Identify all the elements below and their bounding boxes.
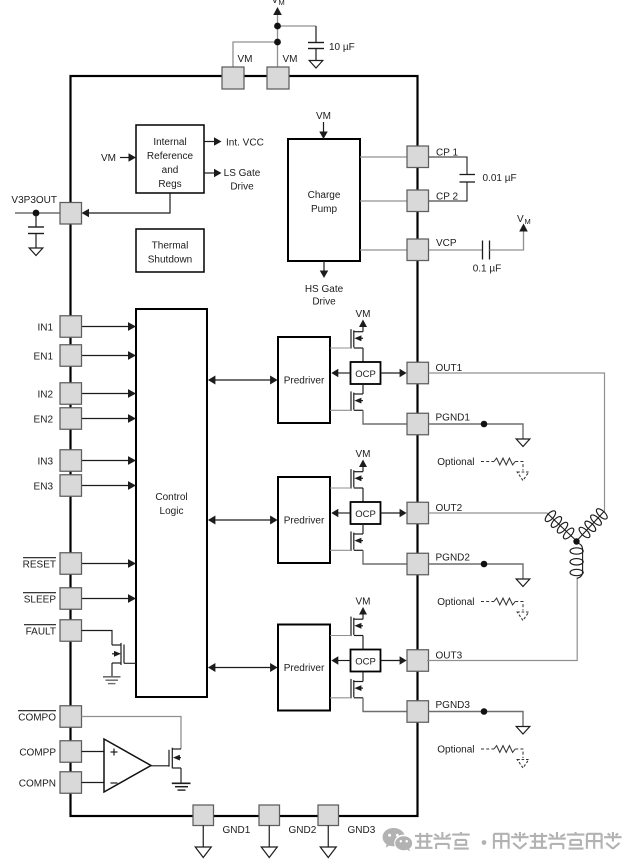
gate lead LS 1 bbox=[330, 409, 351, 411]
wire IN1 to control logic bbox=[82, 326, 131, 328]
wire EN3 to control logic bbox=[82, 485, 131, 487]
wire GND1 to ground bbox=[202, 826, 204, 848]
ground (V3P3OUT) bbox=[29, 248, 43, 256]
svg-text:VCP: VCP bbox=[436, 238, 457, 249]
wire EN2 to control logic bbox=[82, 418, 131, 420]
svg-text:PGND3: PGND3 bbox=[436, 700, 471, 711]
junction dot bbox=[274, 23, 281, 30]
wire source to ground bbox=[111, 663, 113, 677]
svg-text:Optional: Optional bbox=[437, 597, 474, 608]
HS Gate Drive output bbox=[323, 261, 325, 272]
ground (PGND2) bbox=[516, 579, 530, 587]
svg-text:VM: VM bbox=[356, 597, 371, 608]
pin SLEEP bbox=[60, 588, 82, 610]
block: Thermal Shutdown bbox=[136, 229, 204, 272]
ground (GND2) bbox=[261, 847, 277, 858]
transistor (COMPO output fet) bbox=[168, 750, 170, 767]
wire GND3 to ground bbox=[327, 826, 329, 848]
svg-text:0.1 µF: 0.1 µF bbox=[473, 264, 502, 275]
svg-text:Regs: Regs bbox=[158, 179, 181, 190]
output LS Gate Drive bbox=[204, 172, 215, 174]
ground (PGND3) bbox=[516, 727, 530, 735]
wire V3P3OUT bbox=[15, 212, 60, 214]
wire COMPN to comparator - bbox=[82, 782, 105, 784]
junction dot PGND2 bbox=[481, 561, 488, 568]
motor star junction dot bbox=[573, 538, 579, 544]
gate lead from control logic bbox=[124, 662, 136, 664]
svg-text:FAULT: FAULT bbox=[26, 626, 56, 637]
block OCP 1 bbox=[351, 362, 381, 384]
watermark wechat icon bbox=[383, 828, 413, 851]
wire RESET to control logic bbox=[82, 563, 131, 565]
pin COMPO bbox=[60, 706, 82, 728]
transistor low-side 1 bbox=[350, 391, 352, 411]
ground (comparator fet) three-bar bbox=[172, 782, 191, 784]
wire CP to CP2 bbox=[360, 200, 407, 202]
svg-text:Int. VCC: Int. VCC bbox=[226, 138, 264, 149]
junction dot PGND3 bbox=[481, 708, 488, 715]
wire CP to VCP bbox=[360, 249, 407, 251]
wire OCP to LS drain bbox=[362, 524, 364, 534]
pin VM (left pad) bbox=[222, 67, 244, 89]
block OCP 3 bbox=[351, 650, 381, 672]
block: Control Logic bbox=[136, 309, 207, 697]
ground (PGND1) bbox=[516, 439, 530, 447]
pin OUT3 bbox=[407, 650, 429, 672]
wire PGND1 to ground bbox=[429, 424, 524, 439]
wire GND2 to ground bbox=[268, 826, 270, 848]
arrow OCP to OUT3 bbox=[381, 660, 401, 662]
wire comparator output to fet gate bbox=[151, 765, 169, 767]
transistor low-side 2 bbox=[350, 531, 352, 551]
op-amp comparator bbox=[104, 739, 151, 792]
arrow OCP to OUT2 bbox=[381, 512, 401, 514]
ground (GND1) bbox=[195, 847, 211, 858]
bidirectional arrow logic-predriver 2 bbox=[214, 519, 272, 521]
pin VM (right pad) bbox=[267, 67, 289, 89]
gate lead LS 3 bbox=[330, 697, 351, 699]
svg-text:EN1: EN1 bbox=[34, 351, 54, 362]
inductor winding C (from OUT3) bbox=[576, 543, 582, 579]
svg-text:VM: VM bbox=[356, 449, 371, 460]
inductor winding B (from OUT1) bbox=[578, 511, 605, 540]
wire HS source to OCP bbox=[362, 488, 364, 502]
svg-text:EN2: EN2 bbox=[34, 414, 54, 425]
gate lead LS 2 bbox=[330, 549, 351, 551]
svg-text:Drive: Drive bbox=[312, 297, 336, 308]
pin IN2 bbox=[60, 383, 82, 405]
junction dot bbox=[274, 39, 281, 46]
svg-text:OCP: OCP bbox=[355, 509, 376, 520]
pin RESET bbox=[60, 553, 82, 575]
svg-text:and: and bbox=[162, 165, 179, 176]
pin PGND3 bbox=[407, 701, 429, 723]
svg-text:VM: VM bbox=[101, 153, 116, 164]
bidirectional arrow logic-predriver 3 bbox=[214, 667, 272, 669]
svg-text:OCP: OCP bbox=[355, 656, 376, 667]
svg-text:Predriver: Predriver bbox=[284, 663, 325, 674]
chip outline bbox=[71, 76, 418, 816]
arrow OCP to predriver 1 bbox=[338, 372, 351, 374]
arrow OCP to OUT1 bbox=[381, 372, 401, 374]
svg-text:M: M bbox=[525, 217, 531, 226]
capacitor 0.01uF (CP1-CP2) bbox=[429, 157, 468, 175]
watermark text (stylized) bbox=[415, 833, 433, 849]
pin VCP bbox=[407, 239, 429, 261]
svg-text:0.01 µF: 0.01 µF bbox=[483, 173, 517, 184]
wire OCP to LS drain bbox=[362, 672, 364, 682]
pin OUT2 bbox=[407, 502, 429, 524]
wire FAULT to fet drain bbox=[82, 631, 113, 646]
transistor (FAULT open-drain) bbox=[120, 643, 122, 665]
wire LS source to PGND1 bbox=[363, 410, 407, 424]
wire OUT3 to motor bbox=[427, 578, 577, 661]
svg-text:Pump: Pump bbox=[311, 204, 338, 215]
gate lead HS 3 bbox=[330, 635, 351, 637]
wire OCP to LS drain bbox=[362, 384, 364, 394]
svg-text:Control: Control bbox=[155, 492, 187, 503]
junction dot PGND1 bbox=[481, 421, 488, 428]
svg-text:PGND1: PGND1 bbox=[436, 413, 471, 424]
svg-text:Shutdown: Shutdown bbox=[148, 255, 192, 266]
transistor high-side 3 bbox=[350, 617, 352, 637]
svg-text:OUT1: OUT1 bbox=[436, 363, 463, 374]
pin CP2 bbox=[407, 190, 429, 212]
svg-text:Reference: Reference bbox=[147, 151, 194, 162]
svg-text:Thermal: Thermal bbox=[152, 241, 189, 252]
pin PGND2 bbox=[407, 553, 429, 575]
pin COMPN bbox=[60, 772, 82, 794]
transistor low-side 3 bbox=[350, 679, 352, 699]
pin GND2 bbox=[259, 805, 280, 826]
wire LS source to PGND2 bbox=[363, 550, 407, 564]
junction dot bbox=[33, 210, 40, 217]
ground (FAULT fet) three-bar bbox=[103, 676, 121, 678]
predriver 3 bbox=[278, 625, 330, 711]
svg-text:IN2: IN2 bbox=[37, 389, 53, 400]
svg-text:V3P3OUT: V3P3OUT bbox=[11, 195, 57, 206]
predriver 2 bbox=[278, 477, 330, 563]
svg-text:CP 1: CP 1 bbox=[436, 148, 458, 159]
wire PGND2 to ground bbox=[429, 564, 524, 579]
output Int. VCC bbox=[204, 141, 215, 143]
inductor winding A (from OUT2) bbox=[548, 514, 577, 541]
capacitor (V3P3OUT bypass) bbox=[35, 213, 37, 227]
svg-text:VM: VM bbox=[316, 111, 331, 122]
svg-text:COMPN: COMPN bbox=[19, 778, 56, 789]
wire dot1 to 10uF branch bbox=[278, 25, 317, 27]
predriver 1 bbox=[278, 337, 330, 423]
svg-text:COMPO: COMPO bbox=[18, 712, 56, 723]
svg-text:IN3: IN3 bbox=[37, 456, 53, 467]
wire CP to CP1 bbox=[360, 156, 407, 158]
block OCP 2 bbox=[351, 502, 381, 524]
svg-text:IN1: IN1 bbox=[37, 322, 53, 333]
gate lead HS 1 bbox=[330, 347, 351, 349]
pin PGND1 bbox=[407, 413, 429, 435]
pin V3P3OUT bbox=[60, 203, 82, 225]
svg-text:GND3: GND3 bbox=[348, 825, 376, 836]
svg-text:V: V bbox=[517, 214, 524, 225]
svg-text:PGND2: PGND2 bbox=[436, 553, 471, 564]
svg-text:10 µF: 10 µF bbox=[329, 42, 355, 53]
svg-text:Charge: Charge bbox=[308, 190, 341, 201]
capacitor C 10uF bbox=[315, 26, 317, 43]
wire dot2 to left VM pad bbox=[233, 42, 278, 67]
svg-text:HS Gate: HS Gate bbox=[305, 284, 344, 295]
ground (10uF) bbox=[309, 61, 323, 69]
pin GND1 bbox=[193, 805, 214, 826]
pin IN1 bbox=[60, 316, 82, 338]
svg-text:COMPP: COMPP bbox=[19, 747, 56, 758]
svg-text:VM: VM bbox=[283, 54, 298, 65]
pin OUT1 bbox=[407, 362, 429, 384]
wire IN2 to control logic bbox=[82, 393, 131, 395]
svg-text:GND1: GND1 bbox=[223, 825, 251, 836]
wire IN3 to control logic bbox=[82, 460, 131, 462]
wire LS source to PGND3 bbox=[363, 698, 407, 712]
transistor high-side 1 bbox=[350, 329, 352, 349]
pin EN3 bbox=[60, 475, 82, 497]
svg-text:OUT2: OUT2 bbox=[436, 503, 463, 514]
svg-text:Optional: Optional bbox=[437, 745, 474, 756]
arrow OCP to predriver 2 bbox=[338, 512, 351, 514]
wire SLEEP to control logic bbox=[82, 598, 131, 600]
svg-text:OCP: OCP bbox=[355, 369, 376, 380]
svg-text:SLEEP: SLEEP bbox=[24, 594, 57, 605]
svg-text:Logic: Logic bbox=[160, 506, 184, 517]
pin COMPP bbox=[60, 741, 82, 763]
pin EN2 bbox=[60, 408, 82, 430]
wire source to ground bbox=[180, 768, 182, 783]
pin CP1 bbox=[407, 146, 429, 168]
svg-text:Drive: Drive bbox=[230, 182, 254, 193]
gate lead HS 2 bbox=[330, 487, 351, 489]
svg-text:VM: VM bbox=[356, 309, 371, 320]
capacitor 0.1uF (VCP) and VM arrow bbox=[429, 249, 483, 251]
wire OUT2 to motor bbox=[429, 512, 548, 514]
svg-text:RESET: RESET bbox=[23, 559, 56, 570]
svg-text:VM: VM bbox=[238, 54, 253, 65]
svg-text:LS Gate: LS Gate bbox=[224, 168, 261, 179]
svg-text:EN3: EN3 bbox=[34, 481, 54, 492]
arrow up to VM bbox=[277, 14, 279, 67]
wire EN1 to control logic bbox=[82, 355, 131, 357]
bidirectional arrow logic-predriver 1 bbox=[214, 379, 272, 381]
pin GND3 bbox=[318, 805, 339, 826]
svg-text:Optional: Optional bbox=[437, 457, 474, 468]
pin FAULT bbox=[60, 620, 82, 642]
wire OUT1 to motor bbox=[429, 373, 605, 511]
pin IN3 bbox=[60, 450, 82, 472]
wire HS source to OCP bbox=[362, 636, 364, 650]
wire HS source to OCP bbox=[362, 348, 364, 362]
svg-text:CP 2: CP 2 bbox=[436, 192, 458, 203]
wire regs to V3P3OUT bbox=[88, 193, 170, 213]
block: Internal Reference and Regs bbox=[136, 125, 204, 193]
svg-text:OUT3: OUT3 bbox=[436, 651, 463, 662]
svg-text:M: M bbox=[279, 0, 285, 7]
arrow OCP to predriver 3 bbox=[338, 660, 351, 662]
svg-text:Predriver: Predriver bbox=[284, 516, 325, 527]
svg-text:Internal: Internal bbox=[153, 137, 186, 148]
ground (GND3) bbox=[320, 847, 336, 858]
block: Charge Pump bbox=[288, 139, 360, 261]
wire COMPO to fet drain bbox=[82, 717, 182, 750]
svg-text:Predriver: Predriver bbox=[284, 376, 325, 387]
wire PGND3 to ground bbox=[429, 712, 524, 727]
pin EN1 bbox=[60, 345, 82, 367]
svg-text:GND2: GND2 bbox=[289, 825, 317, 836]
wire COMPP to comparator + bbox=[82, 751, 105, 753]
svg-text:V: V bbox=[272, 0, 279, 6]
transistor high-side 2 bbox=[350, 469, 352, 489]
